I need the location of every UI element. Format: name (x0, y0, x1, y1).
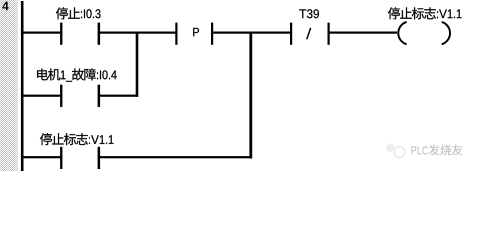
wire contact T39 to coil (330, 32, 398, 34)
wire rung3 contact to branch junction (100, 156, 250, 158)
wire rung2 rail to contact I0.4 (23, 95, 60, 97)
wire rung1 rail to contact I0.3 (23, 32, 60, 34)
contact T39 normally closed (290, 23, 292, 45)
label 停止标志:V1.1 rung3 (40, 133, 114, 145)
contact 电机1_故障:I0.4 (60, 85, 62, 107)
wire branch vertical rung3 up to rung1 (249, 32, 252, 159)
watermark logo PLC发烧友 (386, 143, 394, 151)
label 电机1_故障:I0.4 (37, 68, 117, 81)
network margin strip (0, 0, 18, 171)
contact P positive edge (175, 23, 177, 45)
network number 4 (2, 2, 8, 11)
wire contact I0.3 to contact P (100, 32, 175, 34)
contact 停止:I0.3 (60, 23, 62, 45)
label coil 停止标志:V1.1 (388, 7, 462, 19)
wire rung2 contact to branch junction (100, 95, 136, 97)
left power rail (21, 1, 24, 171)
contact 停止标志:V1.1 rung3 (60, 147, 62, 169)
label T39 (299, 9, 319, 18)
label 停止:I0.3 (56, 7, 101, 19)
wire branch vertical rung2 up to rung1 (136, 32, 139, 97)
wire contact P to contact T39 (213, 32, 290, 34)
wire rung3 rail to contact V1.1 (23, 156, 60, 158)
coil 停止标志:V1.1 (398, 22, 450, 44)
